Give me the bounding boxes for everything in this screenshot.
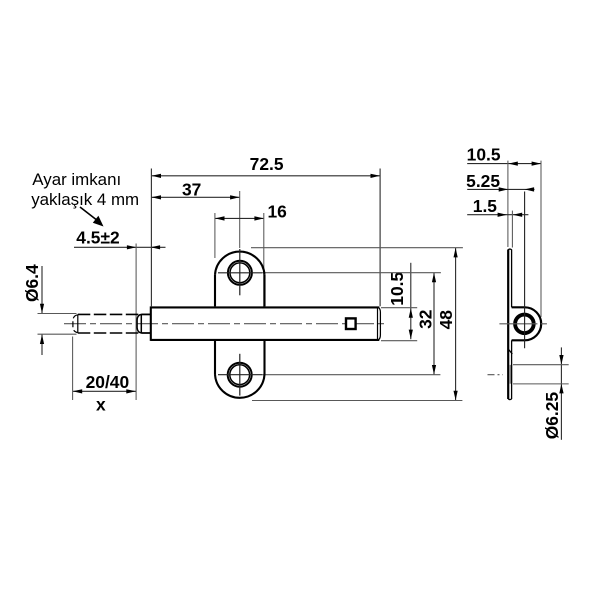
dimension 10.5 (front tube height) [381,263,417,341]
front view mounting plate (stadium) [215,252,265,398]
dimension 72.5 [151,154,380,306]
extension line top hole center to 32 [262,272,441,274]
dimension 5.25 [466,171,534,192]
leader arrow from note [80,207,104,227]
side view crosshair [499,192,548,349]
svg-text:20/40: 20/40 [86,372,130,392]
svg-text:Ayar imkanı: Ayar imkanı [32,170,121,189]
svg-text:5.25: 5.25 [466,171,500,191]
extension line bottom hole center to 32 [262,374,440,376]
dimension 48 [436,248,458,400]
svg-text:x: x [96,395,106,415]
bottom screw hole [218,354,262,396]
countersink mark [508,349,512,354]
svg-text:72.5: 72.5 [250,154,284,174]
side view short center line [488,374,504,376]
side view hole ring [515,315,534,334]
svg-text:4.5±2: 4.5±2 [76,228,119,248]
svg-text:37: 37 [182,179,201,199]
dimension 32 [416,273,437,375]
extension line x=136 (pin tip apex, serves 4.5±2 and 20/40) [135,244,137,401]
pin protruding tip (solid) [137,314,151,333]
dimension 1.5 [467,196,528,247]
extension line plate top to 48 [251,247,463,249]
dimension 16 [215,201,287,306]
svg-text:32: 32 [416,310,436,329]
center line front view [64,323,388,325]
dimension 10.5 (side) [467,144,542,317]
svg-text:48: 48 [436,310,456,330]
side view hidden screw hole [509,365,512,384]
extension line plate bottom to 48 [252,400,462,402]
svg-text:16: 16 [268,201,288,221]
svg-text:yaklaşık 4 mm: yaklaşık 4 mm [31,190,139,209]
small square slot on tube [346,318,356,329]
dimension 20/40 x [73,337,136,415]
svg-text:10.5: 10.5 [467,144,501,164]
side view boss (tube cross-section) [512,307,542,340]
dimension Ø6.4 [22,264,77,355]
front view tube body [151,306,381,341]
svg-text:Ø6.4: Ø6.4 [22,264,42,302]
side view plate [508,249,511,399]
top screw hole [218,249,262,295]
dimension Ø6.25 [513,347,569,439]
svg-text:10.5: 10.5 [387,272,407,306]
dimension 37 [151,179,239,248]
svg-text:Ø6.25: Ø6.25 [542,392,562,440]
pin hidden part (dashed) [73,314,151,333]
note text Ayar imkani yaklasik 4 mm [31,170,139,209]
dimension 4.5±2 [74,228,166,250]
svg-text:1.5: 1.5 [473,196,498,216]
